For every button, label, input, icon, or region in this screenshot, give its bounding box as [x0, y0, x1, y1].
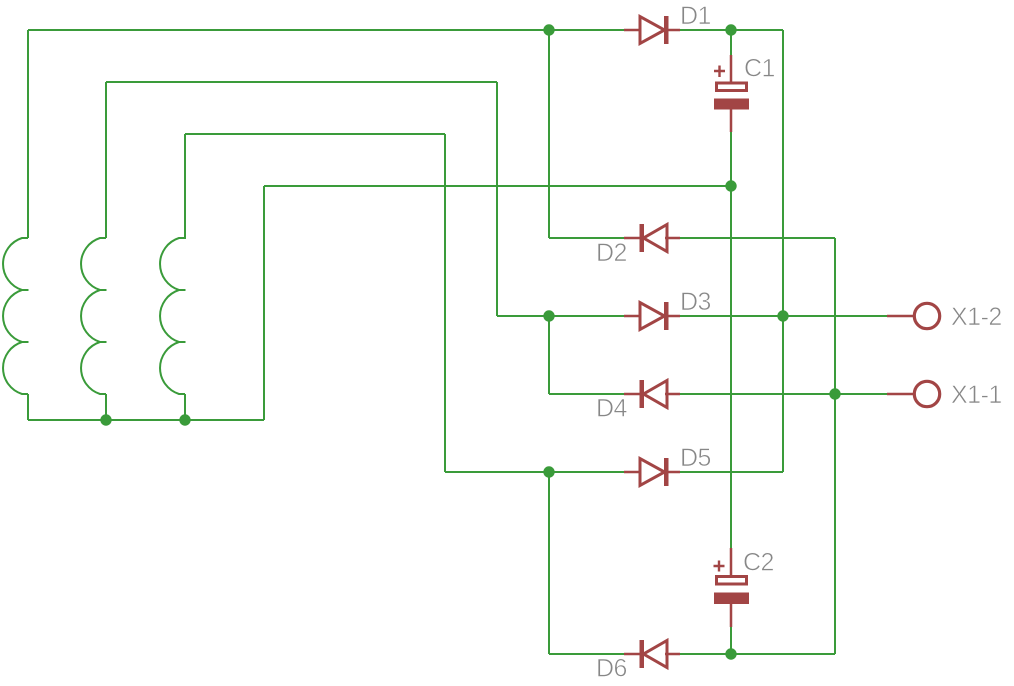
pin D5 cathode	[665, 471, 680, 474]
wire phase3 vertical	[444, 134, 446, 472]
wire D5 feed	[549, 471, 624, 473]
junction node D1 cathode / C1	[725, 24, 736, 35]
diode D2	[640, 224, 668, 252]
svg-text:C2: C2	[743, 549, 774, 577]
pin D5 anode	[624, 471, 641, 474]
wire C1 bottom	[730, 131, 732, 186]
pin X1-1	[887, 393, 914, 396]
diode D6	[640, 640, 668, 668]
junction node D3 output	[777, 310, 788, 321]
svg-text:X1-1: X1-1	[951, 381, 1002, 409]
wire neutral horizontal	[264, 185, 731, 187]
pin D6 right	[665, 653, 680, 656]
wire D2 feed vertical	[548, 30, 550, 238]
pin D3 anode	[624, 315, 641, 318]
inductor winding 3	[160, 134, 185, 394]
svg-text:D6: D6	[596, 655, 627, 683]
wire D1 out to node	[680, 29, 731, 31]
wire D3 output	[680, 315, 887, 317]
svg-text:C1: C1	[744, 55, 775, 83]
junction node coil3 bottom	[179, 414, 190, 425]
wire bottom rail	[28, 419, 264, 421]
wire D6 row right	[731, 653, 835, 655]
wire phase2 vertical	[496, 82, 498, 316]
wire neutral vertical	[263, 186, 265, 420]
junction node D4 output	[829, 388, 840, 399]
pin D4 left	[624, 393, 641, 396]
junction node neutral / C1	[725, 180, 736, 191]
pin X1-2	[887, 315, 914, 318]
wire phase3 horizontal	[185, 133, 445, 135]
terminal pad X1-2	[914, 303, 939, 328]
pin D3 cathode	[665, 315, 680, 318]
pin D2 left	[624, 237, 641, 240]
wire top to D1	[549, 29, 624, 31]
junction node D5 anode	[543, 466, 554, 477]
wire coil2 bottom vertical	[105, 394, 107, 420]
wire D2 output	[680, 237, 835, 239]
junction node top D1 anode	[543, 24, 554, 35]
diode D1	[640, 16, 669, 44]
wire D6 row left	[549, 653, 624, 655]
wire coil1 top vertical	[27, 30, 29, 238]
pin C1 top	[730, 55, 733, 83]
capacitor C1	[714, 66, 749, 110]
wire D4 output	[680, 393, 887, 395]
wire D4 feed vertical	[548, 316, 550, 394]
wire D6 row mid	[680, 653, 731, 655]
svg-text:D1: D1	[680, 2, 711, 30]
svg-text:D2: D2	[596, 239, 627, 267]
wire D3 feed 2	[549, 315, 624, 317]
wire coil1 bottom vertical	[27, 394, 29, 420]
pin D1 anode	[624, 29, 641, 32]
wire node to right corner	[731, 29, 783, 31]
wire coil2 top vertical	[105, 82, 107, 238]
wire right vertical 783	[782, 30, 784, 472]
wire D5-D6 link	[548, 472, 550, 654]
svg-text:D4: D4	[596, 395, 628, 423]
inductor winding 1	[3, 238, 28, 394]
wire D4 feed horizontal	[549, 393, 624, 395]
wire D5 row left	[445, 471, 549, 473]
wire coil3 bottom vertical	[184, 394, 186, 420]
wire C1 to C2	[730, 186, 732, 550]
wire phase2 horizontal	[106, 81, 497, 83]
wire D5 output	[680, 471, 783, 473]
pin D6 left	[624, 653, 641, 656]
pin C2 bottom	[730, 604, 733, 627]
junction node C2 / D6	[725, 648, 736, 659]
capacitor C2	[714, 561, 750, 605]
svg-text:D5: D5	[680, 444, 711, 472]
wire C1 top	[730, 30, 732, 57]
diode D3	[640, 302, 669, 330]
wire right vertical 835	[834, 238, 836, 654]
pin C1 bottom	[730, 109, 733, 132]
wire coil3 top vertical	[184, 134, 186, 238]
junction node coil2 bottom	[100, 414, 111, 425]
svg-text:X1-2: X1-2	[951, 303, 1002, 331]
inductor winding 2	[81, 238, 106, 394]
wire D2 feed horizontal	[549, 237, 624, 239]
wire top phase1	[28, 29, 549, 31]
wire D3 feed	[497, 315, 549, 317]
pin C2 top	[730, 548, 733, 576]
diode D5	[640, 458, 669, 486]
terminal pad X1-1	[914, 381, 939, 406]
wire C2 bottom	[730, 626, 732, 654]
pin D1 cathode	[665, 29, 680, 32]
diode D4	[640, 380, 668, 408]
pin D2 right	[665, 237, 680, 240]
svg-text:D3: D3	[680, 288, 711, 316]
junction node D3 anode	[543, 310, 554, 321]
pin D4 right	[665, 393, 680, 396]
